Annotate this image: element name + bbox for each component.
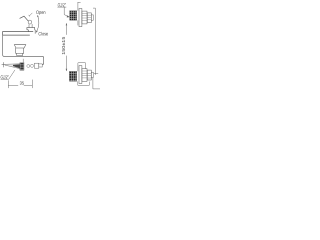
node side-view wall flange hatched block: [20, 63, 24, 71]
wire: lower rounded outline from spout end to side view: [3, 35, 44, 65]
node side-view centerline cross: [2, 62, 6, 67]
svg-text:150±15: 150±15: [61, 36, 67, 55]
svg-text:G1/2": G1/2": [58, 2, 66, 7]
node side-view union ring 1: [27, 65, 30, 68]
wire: bracket above bottom union: [78, 63, 85, 69]
node side-view spout wedge: [5, 64, 20, 69]
node side-view spout dark band: [13, 64, 20, 68]
node aerator body: [16, 48, 24, 53]
dimension 35 line: [8, 85, 32, 87]
node union tip top: [91, 15, 93, 20]
node side-view union ring 2: [31, 64, 34, 67]
dimension 35 extension lines: [8, 80, 32, 89]
wire: open-close arc with arrows: [37, 16, 39, 32]
node centerline cross bottom right: [94, 73, 98, 75]
svg-text:Close: Close: [38, 31, 48, 37]
wire: wall face line above and below top block: [78, 2, 81, 25]
node lever handle solid position: [20, 16, 29, 21]
svg-text:35: 35: [20, 81, 25, 86]
dimension 150±15 vertical line segments with arrows: [65, 23, 67, 71]
node union flange rect top: [79, 9, 82, 27]
svg-text:Open: Open: [36, 10, 46, 16]
svg-text:G1/2": G1/2": [0, 75, 8, 80]
node union nut bottom: [82, 69, 87, 82]
node union mid piece bottom: [87, 70, 91, 80]
wire: stepped line below bottom union right: [93, 78, 100, 89]
node aerator tip: [17, 53, 23, 55]
node valve base escutcheon: [27, 28, 35, 34]
node aerator flange: [14, 45, 25, 48]
label G1/2 leader (side view): [1, 70, 15, 79]
node hatched wall block top: [70, 11, 77, 21]
node union flange rect bottom: [79, 66, 82, 84]
node side-view connector rect: [34, 63, 38, 68]
node lever handle raised position: [29, 13, 33, 17]
node side-view connector end: [39, 64, 42, 67]
wire: valve stem sides: [29, 24, 32, 28]
node union tip bottom: [91, 72, 93, 77]
node lever ball knob: [28, 20, 32, 24]
wire: side-view stem up from block: [22, 59, 24, 63]
node union mid piece top: [87, 13, 91, 23]
label G1/2 underline and leader arrow (top right): [57, 7, 69, 17]
node union nut top: [82, 11, 87, 24]
wire: front-view spout bar outline: [3, 32, 34, 35]
node hatched wall block bottom: [69, 71, 76, 81]
wire: riser pipe from top union down: [93, 8, 95, 75]
wire: stepped line below bottom union left: [78, 82, 90, 86]
wire: wall face line bottom: [77, 63, 79, 86]
